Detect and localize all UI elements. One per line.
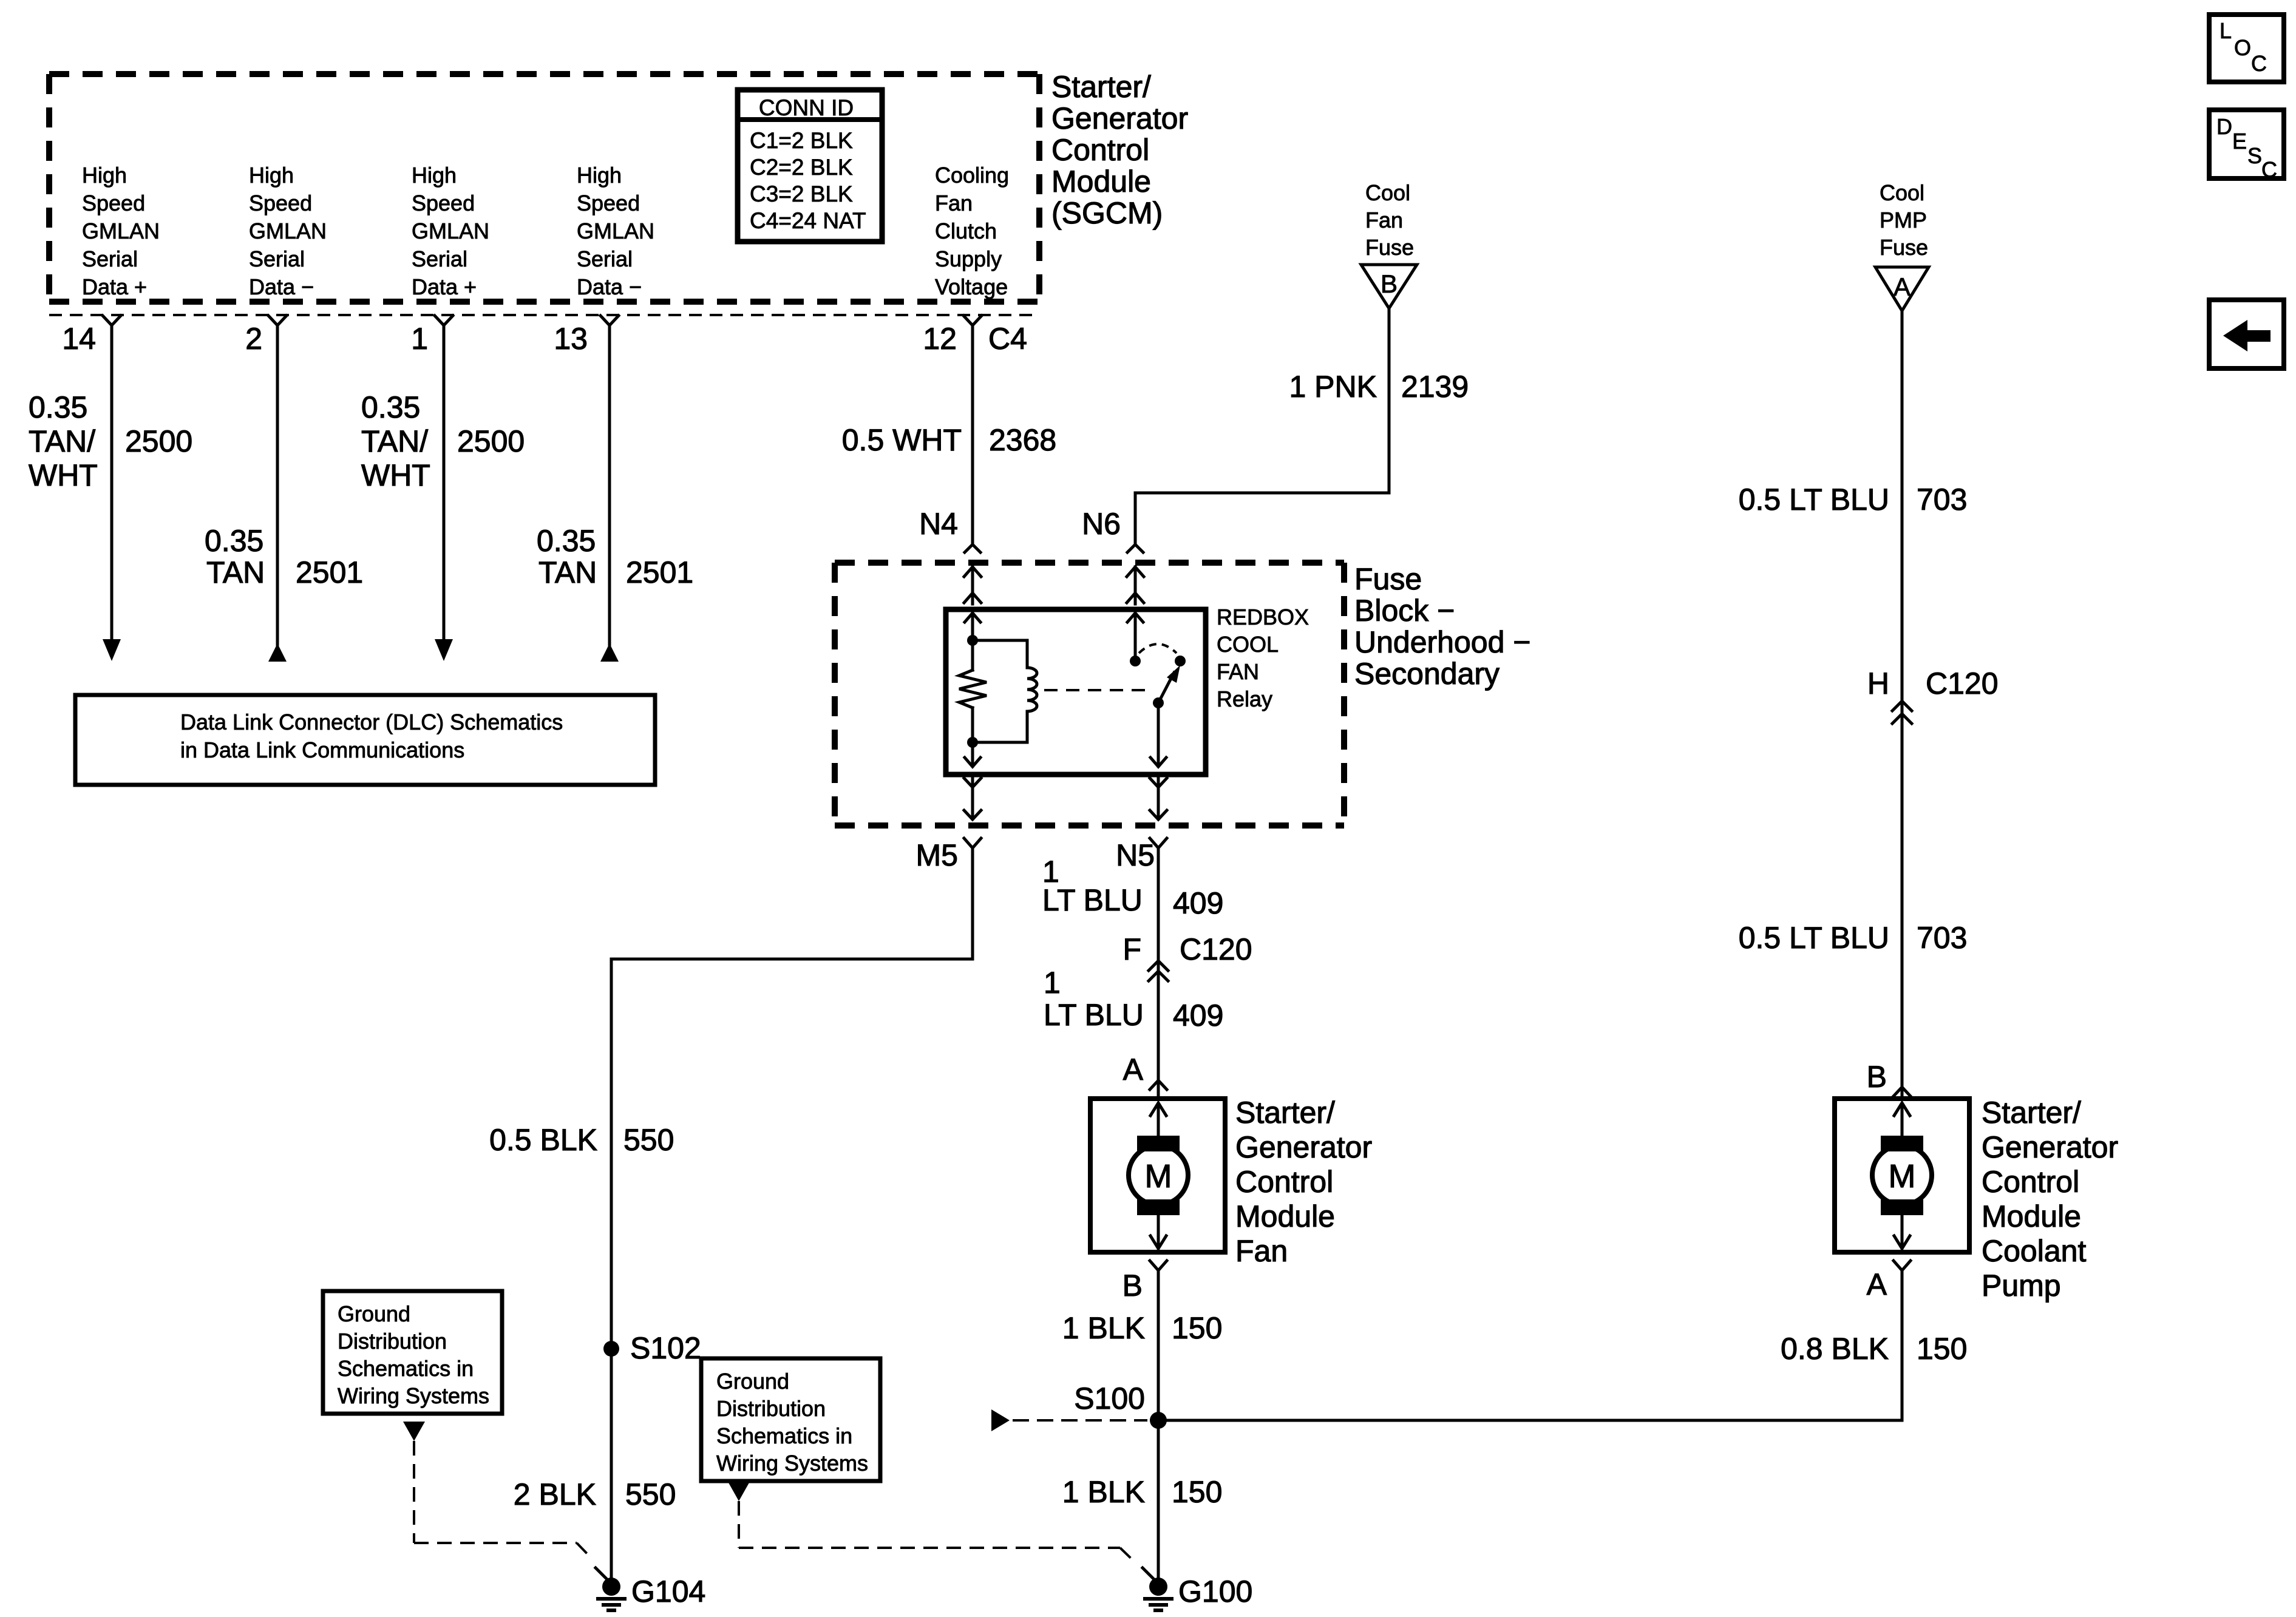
- DLC reference box: [75, 695, 655, 785]
- connector ID table CONN ID: [738, 90, 882, 242]
- ground box 2 pointer triangle right: [991, 1409, 1010, 1431]
- splice S100 dot: [1150, 1412, 1167, 1429]
- relay coil: [973, 640, 1037, 742]
- svg-text:150: 150: [1917, 1332, 1967, 1366]
- svg-text:H: H: [1867, 666, 1889, 700]
- svg-text:B: B: [1123, 1269, 1143, 1303]
- svg-text:Relay: Relay: [1217, 686, 1272, 711]
- pin 14 connector Y: [103, 316, 121, 325]
- label: Starter/Generator Control Module Fan: [1235, 1096, 1372, 1268]
- wire: fuse A to coolant pump B (0.5 LT BLU 703): [1901, 311, 1904, 1099]
- LOC legend box: [2209, 15, 2284, 82]
- svg-text:CONN ID: CONN ID: [759, 95, 854, 120]
- svg-text:Schematics in: Schematics in: [338, 1356, 474, 1381]
- svg-text:Clutch: Clutch: [935, 219, 997, 243]
- ground box 2 dashed leader to G100: [739, 1501, 1136, 1564]
- svg-text:Control: Control: [1051, 133, 1149, 167]
- ground G104 symbol: [596, 1568, 627, 1610]
- label: wire 0.35 TAN (pin 2): [205, 524, 265, 589]
- coolant pump exit arrow: [1894, 1215, 1910, 1249]
- svg-text:C1=2 BLK: C1=2 BLK: [750, 128, 853, 153]
- svg-text:Data +: Data +: [412, 274, 477, 299]
- svg-text:B: B: [1381, 269, 1398, 298]
- svg-text:Fuse: Fuse: [1354, 562, 1422, 596]
- svg-text:Generator: Generator: [1051, 101, 1188, 135]
- relay linkage dashed line: [1044, 689, 1149, 691]
- back arrow legend box: [2209, 300, 2284, 368]
- svg-text:Data Link Connector (DLC) Sche: Data Link Connector (DLC) Schematics: [180, 710, 563, 734]
- wire: N5 to fan motor (1 LT BLU 409): [1157, 848, 1160, 1099]
- svg-text:B: B: [1867, 1060, 1887, 1094]
- svg-text:TAN: TAN: [206, 555, 265, 589]
- svg-text:Block −: Block −: [1354, 594, 1455, 628]
- fuse symbol A Cool PMP Fuse: [1875, 267, 1929, 311]
- svg-text:Fan: Fan: [935, 191, 973, 215]
- label: pin 13 function High Speed GMLAN Serial Data -: [577, 163, 654, 299]
- SGCM connector face dashed line: [49, 314, 1039, 316]
- wire: fan motor B to G100 (1 BLK 150): [1157, 1270, 1160, 1578]
- svg-text:1: 1: [411, 322, 428, 356]
- svg-text:Fan: Fan: [1235, 1234, 1288, 1268]
- svg-text:Wiring Systems: Wiring Systems: [716, 1451, 868, 1476]
- relay switch blade with arrowhead: [1158, 665, 1180, 703]
- svg-text:GMLAN: GMLAN: [82, 219, 160, 243]
- svg-text:N4: N4: [919, 507, 958, 541]
- svg-text:High: High: [249, 163, 294, 188]
- svg-text:0.5 BLK: 0.5 BLK: [489, 1123, 597, 1157]
- svg-text:Generator: Generator: [1235, 1130, 1372, 1164]
- svg-text:0.35: 0.35: [29, 390, 87, 424]
- svg-text:S102: S102: [630, 1331, 701, 1365]
- svg-text:409: 409: [1173, 886, 1223, 920]
- label: pin 12 function Cooling Fan Clutch Supply Voltage: [935, 163, 1009, 299]
- svg-text:14: 14: [62, 322, 96, 356]
- svg-text:0.8 BLK: 0.8 BLK: [1781, 1332, 1889, 1366]
- ground box 1 pointer triangle: [403, 1422, 425, 1441]
- svg-text:C120: C120: [1180, 932, 1252, 966]
- svg-text:C: C: [2251, 51, 2267, 76]
- svg-text:Distribution: Distribution: [338, 1329, 447, 1354]
- svg-text:COOL: COOL: [1217, 632, 1279, 657]
- wire: pin 13 to DLC box with up arrow: [600, 325, 619, 662]
- relay junction node upper: [967, 635, 978, 646]
- label: wire 0.35 TAN (pin 13): [537, 524, 597, 589]
- svg-text:A: A: [1123, 1053, 1144, 1086]
- svg-text:0.35: 0.35: [537, 524, 596, 558]
- coolant pump brush upper: [1881, 1136, 1923, 1151]
- svg-text:150: 150: [1172, 1475, 1222, 1509]
- svg-text:Fuse: Fuse: [1365, 235, 1414, 260]
- connector C120 chevrons (fan): [1149, 961, 1168, 981]
- svg-text:703: 703: [1917, 921, 1967, 955]
- relay switch alternate position dashed arc: [1139, 644, 1177, 653]
- svg-text:Module: Module: [1051, 164, 1151, 198]
- M5 connector fork below fuse block: [964, 838, 981, 848]
- svg-text:Control: Control: [1982, 1165, 2079, 1199]
- svg-text:12: 12: [923, 322, 957, 356]
- svg-text:GMLAN: GMLAN: [577, 219, 654, 243]
- svg-text:Speed: Speed: [249, 191, 312, 215]
- pin 1 connector Y: [435, 316, 453, 325]
- coolant pump entry arrow: [1894, 1103, 1910, 1136]
- label: REDBOX COOL FAN Relay: [1217, 605, 1309, 711]
- svg-text:Speed: Speed: [577, 191, 640, 215]
- SGCM module dashed box: [49, 74, 1039, 302]
- fan motor brush upper: [1137, 1136, 1180, 1151]
- relay coil branch exit arrow (M5 side): [965, 742, 980, 767]
- svg-text:2139: 2139: [1401, 370, 1469, 404]
- svg-text:N6: N6: [1082, 507, 1121, 541]
- svg-text:REDBOX: REDBOX: [1217, 605, 1309, 629]
- svg-text:Distribution: Distribution: [716, 1396, 826, 1421]
- svg-text:Module: Module: [1235, 1199, 1335, 1233]
- coolant pump motor box: [1835, 1099, 1969, 1252]
- svg-text:Wiring Systems: Wiring Systems: [338, 1383, 489, 1408]
- svg-text:1 PNK: 1 PNK: [1289, 370, 1377, 404]
- ground box 2 pointer triangle down: [728, 1482, 750, 1501]
- label: pin 14 function High Speed GMLAN Serial Data +: [82, 163, 160, 299]
- fan motor entry chevron: [1150, 1080, 1167, 1090]
- svg-text:M: M: [1145, 1158, 1172, 1195]
- wire: N5 exit chevrons out of fuse block: [1150, 778, 1167, 819]
- relay switch contact dot left: [1130, 656, 1141, 666]
- svg-text:0.35: 0.35: [361, 390, 420, 424]
- svg-text:Speed: Speed: [412, 191, 475, 215]
- label: wire 0.35 TAN/WHT (pin 14): [29, 390, 98, 492]
- svg-text:Serial: Serial: [82, 246, 138, 271]
- fan motor brush lower: [1137, 1199, 1180, 1215]
- wire: pin 1 to DLC box with down arrow: [435, 325, 453, 661]
- svg-text:Starter/: Starter/: [1051, 70, 1151, 104]
- label: Starter/Generator Control Module (SGCM): [1051, 70, 1188, 230]
- svg-text:S: S: [2247, 143, 2262, 168]
- relay box REDBOX COOL FAN Relay: [946, 609, 1206, 775]
- svg-text:WHT: WHT: [361, 458, 430, 492]
- svg-text:(SGCM): (SGCM): [1051, 196, 1163, 230]
- ground reference box 1 Ground Distribution: [323, 1291, 502, 1414]
- svg-text:G100: G100: [1178, 1575, 1252, 1609]
- svg-text:S100: S100: [1074, 1381, 1145, 1415]
- svg-text:Schematics in: Schematics in: [716, 1423, 852, 1448]
- svg-text:N5: N5: [1116, 838, 1155, 872]
- svg-text:1: 1: [1044, 966, 1061, 1000]
- svg-text:Cool: Cool: [1365, 180, 1410, 205]
- svg-text:Voltage: Voltage: [935, 274, 1008, 299]
- pin 12 connector Y: [963, 316, 982, 325]
- svg-text:L: L: [2220, 18, 2232, 43]
- svg-text:Serial: Serial: [577, 246, 633, 271]
- label: pin 1 function High Speed GMLAN Serial Data +: [412, 163, 489, 299]
- svg-text:TAN/: TAN/: [361, 424, 428, 458]
- wire: S100 to coolant pump A: [1158, 1270, 1902, 1420]
- svg-text:M5: M5: [916, 838, 958, 872]
- svg-text:2: 2: [245, 322, 262, 356]
- wire: N4 entry chevrons into fuse block: [964, 567, 981, 604]
- wire: pin 12 C4 down to N4: [965, 325, 980, 552]
- svg-text:C120: C120: [1926, 666, 1999, 700]
- pin 2 connector Y: [268, 316, 287, 325]
- svg-text:in Data Link Communications: in Data Link Communications: [180, 737, 464, 762]
- svg-text:Ground: Ground: [338, 1301, 410, 1326]
- svg-text:0.5 LT BLU: 0.5 LT BLU: [1739, 483, 1889, 517]
- svg-text:0.35: 0.35: [205, 524, 263, 558]
- svg-text:703: 703: [1917, 483, 1967, 517]
- svg-text:C2=2 BLK: C2=2 BLK: [750, 155, 853, 180]
- label: Starter/Generator Control Module Coolant Pump: [1982, 1096, 2118, 1303]
- svg-text:2500: 2500: [125, 424, 192, 458]
- fan motor box: [1090, 1099, 1225, 1252]
- svg-text:Underhood −: Underhood −: [1354, 625, 1531, 659]
- splice S102 dot: [603, 1341, 619, 1357]
- label: pin 2 function High Speed GMLAN Serial Data -: [249, 163, 327, 299]
- svg-text:Secondary: Secondary: [1354, 657, 1500, 691]
- svg-text:F: F: [1123, 932, 1141, 966]
- svg-text:C4: C4: [988, 322, 1027, 356]
- svg-text:2368: 2368: [989, 423, 1056, 457]
- svg-text:1 BLK: 1 BLK: [1062, 1475, 1145, 1509]
- svg-text:Generator: Generator: [1982, 1130, 2118, 1164]
- relay switch pivot dot: [1153, 697, 1164, 708]
- N5 connector fork below fuse block: [1150, 838, 1167, 848]
- fuse block underhood secondary dashed box: [835, 563, 1344, 825]
- svg-text:2 BLK: 2 BLK: [514, 1477, 596, 1511]
- svg-text:High: High: [577, 163, 622, 188]
- svg-text:150: 150: [1172, 1311, 1222, 1345]
- svg-text:M: M: [1889, 1158, 1916, 1195]
- svg-text:13: 13: [554, 322, 588, 356]
- svg-text:Fan: Fan: [1365, 208, 1403, 232]
- coolant pump brush lower: [1881, 1199, 1923, 1215]
- svg-text:Starter/: Starter/: [1982, 1096, 2081, 1130]
- svg-text:C4=24 NAT: C4=24 NAT: [750, 208, 866, 233]
- fuse symbol B Cool Fan Fuse: [1361, 265, 1417, 308]
- svg-text:Ground: Ground: [716, 1369, 789, 1394]
- label: wire 1 LT BLU upper: [1042, 855, 1143, 917]
- coolant pump entry chevron: [1894, 1087, 1911, 1096]
- svg-text:Control: Control: [1235, 1165, 1333, 1199]
- svg-text:High: High: [412, 163, 457, 188]
- svg-text:G104: G104: [631, 1575, 705, 1609]
- relay switch common entry arrow (N6 side): [1127, 613, 1143, 656]
- svg-text:High: High: [82, 163, 127, 188]
- fan motor exit fork: [1150, 1261, 1167, 1270]
- label: wire 0.35 TAN/WHT (pin 1): [361, 390, 430, 492]
- svg-text:Starter/: Starter/: [1235, 1096, 1335, 1130]
- svg-text:409: 409: [1173, 998, 1223, 1032]
- coolant pump exit fork: [1894, 1261, 1911, 1270]
- svg-text:C3=2 BLK: C3=2 BLK: [750, 181, 853, 206]
- svg-text:FAN: FAN: [1217, 659, 1259, 684]
- svg-text:Cooling: Cooling: [935, 163, 1009, 188]
- pin 13 connector Y: [600, 316, 619, 325]
- svg-text:Cool: Cool: [1880, 180, 1924, 205]
- DESC legend box: [2209, 110, 2284, 182]
- label: Fuse Block - Underhood - Secondary: [1354, 562, 1531, 691]
- svg-text:PMP: PMP: [1880, 208, 1927, 232]
- svg-text:2501: 2501: [626, 555, 693, 589]
- relay coil branch entry arrow (N4 side): [965, 613, 980, 637]
- svg-text:D: D: [2216, 114, 2232, 139]
- svg-text:C: C: [2261, 157, 2277, 182]
- svg-text:Supply: Supply: [935, 246, 1002, 271]
- svg-text:550: 550: [625, 1477, 676, 1511]
- svg-text:GMLAN: GMLAN: [412, 219, 489, 243]
- svg-text:Serial: Serial: [412, 246, 467, 271]
- svg-text:Module: Module: [1982, 1199, 2081, 1233]
- wire: pin 14 to DLC box with down arrow: [103, 325, 121, 661]
- svg-text:GMLAN: GMLAN: [249, 219, 327, 243]
- svg-text:1 BLK: 1 BLK: [1062, 1311, 1145, 1345]
- relay resistor: [959, 640, 987, 742]
- svg-text:Data −: Data −: [577, 274, 642, 299]
- wire: N6 entry chevrons into fuse block: [1127, 567, 1144, 604]
- relay switch exit arrow (N5 side): [1150, 708, 1166, 767]
- svg-text:Serial: Serial: [249, 246, 305, 271]
- svg-text:0.5 LT BLU: 0.5 LT BLU: [1739, 921, 1889, 955]
- fan motor entry arrow: [1150, 1103, 1166, 1136]
- svg-text:550: 550: [623, 1123, 674, 1157]
- svg-text:WHT: WHT: [29, 458, 98, 492]
- svg-text:TAN: TAN: [538, 555, 597, 589]
- svg-text:Speed: Speed: [82, 191, 145, 215]
- label: wire 1 LT BLU lower: [1044, 966, 1144, 1032]
- svg-text:E: E: [2232, 129, 2247, 154]
- svg-text:Coolant: Coolant: [1982, 1234, 2086, 1268]
- ground G100 symbol: [1143, 1568, 1173, 1610]
- label: Cool Fan Fuse: [1365, 180, 1414, 260]
- fan motor M circle: [1129, 1145, 1188, 1205]
- svg-text:O: O: [2234, 35, 2251, 60]
- svg-text:A: A: [1867, 1267, 1887, 1301]
- svg-text:Pump: Pump: [1982, 1269, 2061, 1303]
- wire: M5 exit chevrons out of fuse block: [964, 778, 981, 819]
- coolant pump M circle: [1872, 1145, 1932, 1205]
- ground box 2 dashed leader to S100: [1013, 1419, 1147, 1422]
- svg-text:0.5 WHT: 0.5 WHT: [842, 423, 962, 457]
- ground reference box 2 Ground Distribution: [701, 1358, 880, 1481]
- connector C120 chevrons (pump): [1892, 701, 1912, 724]
- svg-text:2500: 2500: [457, 424, 525, 458]
- ground box 1 dashed leader to G104: [414, 1441, 592, 1559]
- relay switch contact dot right: [1175, 656, 1186, 666]
- label: Cool PMP Fuse: [1880, 180, 1928, 260]
- svg-text:Fuse: Fuse: [1880, 235, 1928, 260]
- svg-text:Data +: Data +: [82, 274, 147, 299]
- svg-text:Data −: Data −: [249, 274, 314, 299]
- svg-text:2501: 2501: [296, 555, 363, 589]
- wire: M5 to G104 (0.5 BLK 550 / 2 BLK 550): [611, 848, 973, 1578]
- svg-text:LT BLU: LT BLU: [1044, 998, 1144, 1032]
- fan motor exit arrow: [1150, 1215, 1166, 1249]
- wire: fuse B to N6: [1127, 308, 1389, 552]
- relay junction node lower: [967, 737, 978, 748]
- svg-text:TAN/: TAN/: [29, 424, 95, 458]
- svg-text:A: A: [1894, 273, 1911, 301]
- wire: pin 2 to DLC box with up arrow: [268, 325, 287, 662]
- svg-text:LT BLU: LT BLU: [1042, 883, 1143, 917]
